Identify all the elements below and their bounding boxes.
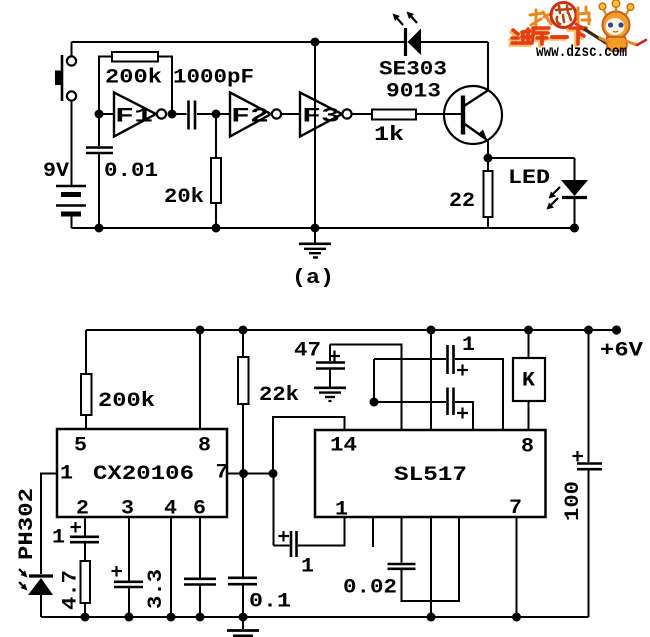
- op-amp F1 inverter: [114, 93, 166, 137]
- svg-text:8: 8: [521, 436, 534, 459]
- logo char 库 red: [532, 28, 549, 44]
- svg-text:1: 1: [301, 556, 314, 579]
- wire pin4 to rail: [170, 517, 172, 617]
- wire 1k to base: [416, 113, 444, 115]
- svg-text:F1: F1: [115, 106, 153, 129]
- ground (b): [227, 617, 259, 636]
- node rail 100: [584, 326, 593, 335]
- svg-text:4.7: 4.7: [60, 570, 83, 610]
- svg-text:8: 8: [198, 435, 211, 458]
- svg-text:100: 100: [562, 481, 585, 521]
- node F1 input: [95, 110, 104, 119]
- capacitor 0.01: [86, 114, 113, 228]
- capacitor 1000pF series: [172, 101, 216, 130]
- resistor 1k: [372, 110, 416, 120]
- op-amp F2 inverter: [216, 93, 281, 137]
- capacitor 1 bottom: [274, 474, 297, 557]
- capacitor at pin6: [184, 517, 216, 617]
- wire F2 out to F3: [281, 113, 300, 115]
- wire CX pin7 to SL pin14: [227, 473, 273, 475]
- wire SL dangling stub: [372, 517, 374, 547]
- resistor R 200k: [112, 52, 158, 62]
- capacitor 3.3 at pin3: [112, 517, 144, 617]
- wire collector drop: [487, 42, 489, 90]
- svg-text:200k: 200k: [105, 67, 162, 90]
- svg-text:22k: 22k: [259, 384, 299, 407]
- resistor 22k: [238, 330, 249, 474]
- node bottom rail junction: [311, 224, 320, 233]
- transistor Q 9013: [444, 86, 502, 144]
- battery 9V: [56, 186, 86, 214]
- capacitor 1 upper: [374, 345, 503, 430]
- node F2 input: [212, 110, 221, 119]
- wire +6V top rail: [86, 329, 617, 331]
- node pin7 bottom: [512, 613, 521, 622]
- svg-text:7: 7: [216, 462, 229, 485]
- svg-text:20k: 20k: [164, 186, 204, 209]
- svg-text:SE303: SE303: [379, 59, 447, 82]
- node rail cap drop: [427, 326, 436, 335]
- node caps left: [370, 398, 379, 407]
- logo char 下 red: [570, 28, 586, 44]
- svg-text:1: 1: [60, 463, 73, 486]
- svg-text:F2: F2: [231, 106, 269, 129]
- wire feedback loop right: [158, 57, 172, 115]
- ground (a): [299, 228, 331, 258]
- logo char 一 red: [552, 35, 567, 39]
- wire rail to CX pin 8: [199, 330, 201, 429]
- wire SL pin1 to cap 1: [298, 517, 345, 546]
- svg-text:14: 14: [330, 435, 357, 458]
- capacitor 47: [316, 345, 345, 369]
- LED indicator diode: [547, 158, 589, 228]
- wire bottom rail (a): [72, 227, 575, 229]
- svg-text:0.01: 0.01: [104, 160, 158, 183]
- wire SL mid pin to ground rail: [430, 517, 432, 617]
- wire emitter node to LED branch: [488, 157, 575, 159]
- logo char 维 red: [512, 29, 530, 43]
- svg-text:0.1: 0.1: [249, 591, 291, 614]
- wire CX pin1 to photodiode: [41, 474, 57, 575]
- svg-text:47: 47: [294, 340, 321, 363]
- node mid pin bottom: [427, 613, 436, 622]
- IC U2 SL517: [315, 430, 546, 522]
- svg-text:1000pF: 1000pF: [173, 67, 254, 90]
- node +6V terminal: [612, 325, 621, 334]
- svg-text:200k: 200k: [98, 390, 155, 413]
- svg-text:www.dzsc.com: www.dzsc.com: [536, 43, 627, 61]
- wire cap pair left link: [373, 359, 375, 402]
- IC U1 CX20106: [57, 429, 229, 521]
- wire 47 top to SL pin: [330, 345, 402, 431]
- svg-text:(a): (a): [292, 267, 334, 290]
- wire SL pin7 to ground rail: [516, 517, 518, 617]
- logo mascot antennae: [603, 4, 630, 17]
- resistor 4.7: [81, 561, 91, 617]
- node 20k bottom: [212, 224, 221, 233]
- svg-text:+6V: +6V: [600, 340, 643, 363]
- wire rail drop to SL top: [430, 330, 432, 430]
- node top rail junction: [311, 38, 320, 47]
- node emitter junction: [484, 154, 493, 163]
- svg-text:1: 1: [462, 334, 475, 357]
- logo red text shadow: [510, 30, 584, 46]
- ground 47: [314, 370, 346, 402]
- svg-text:SL517: SL517: [394, 464, 467, 487]
- photodiode PH302: [19, 569, 53, 617]
- logo mascot body: [607, 37, 627, 51]
- capacitor 0.02: [388, 517, 460, 601]
- wire emitter drop: [487, 140, 489, 158]
- logo char 找: [530, 10, 552, 26]
- node rail pin8: [196, 326, 205, 335]
- logo magnifier ring: [551, 3, 576, 28]
- capacitor 1 lower: [374, 388, 473, 431]
- svg-text:2: 2: [76, 498, 89, 521]
- node ground junction (b): [239, 613, 248, 622]
- resistor 22: [484, 158, 493, 228]
- logo char 芯 in magnifier: [556, 6, 571, 24]
- wire up-over to pin14: [273, 417, 345, 474]
- svg-text:F3: F3: [302, 106, 340, 129]
- wire feedback loop left: [99, 57, 112, 115]
- svg-text:CX20106: CX20106: [93, 463, 194, 486]
- node pin7 branch: [269, 469, 278, 478]
- svg-text:0.02: 0.02: [343, 577, 397, 600]
- wire vertical rail through F3: [314, 42, 316, 228]
- wire switch to battery: [71, 101, 73, 185]
- relay K: [513, 330, 545, 430]
- svg-text:3: 3: [121, 498, 134, 521]
- logo mascot head: [603, 12, 630, 39]
- wire top rail left: [72, 41, 405, 43]
- svg-text:1: 1: [52, 527, 65, 550]
- svg-text:K: K: [522, 370, 535, 393]
- op-amp F3 inverter: [300, 93, 352, 137]
- wire F1 input stub: [99, 113, 114, 115]
- svg-text:1k: 1k: [374, 124, 404, 147]
- svg-text:3.3: 3.3: [145, 569, 168, 609]
- wire battery to bottom rail: [71, 214, 73, 228]
- node rail 22k: [239, 326, 248, 335]
- wire switch drop from rail: [71, 42, 73, 56]
- svg-text:9013: 9013: [386, 81, 441, 104]
- node LED bottom: [570, 224, 579, 233]
- logo mascot pen: [581, 27, 611, 46]
- capacitor 0.1: [228, 474, 257, 618]
- LED SE303 infrared diode: [393, 12, 422, 57]
- resistor 200k (b): [81, 330, 92, 429]
- node pin3 bottom: [125, 613, 134, 622]
- svg-text:7: 7: [509, 497, 522, 520]
- resistor 20k: [211, 114, 221, 228]
- node pin6 bottom: [196, 613, 205, 622]
- node pin2 bottom: [81, 613, 90, 622]
- svg-text:22: 22: [449, 190, 475, 213]
- switch S contacts: [55, 55, 76, 101]
- wire F3 out: [352, 113, 373, 115]
- svg-text:9V: 9V: [43, 160, 69, 183]
- node pin4 bottom: [167, 613, 176, 622]
- capacitor 100: [573, 330, 603, 617]
- svg-text:5: 5: [74, 435, 87, 458]
- wire bottom rail (b): [41, 616, 589, 618]
- logo char 片: [578, 7, 590, 25]
- node F1 output: [168, 110, 177, 119]
- svg-text:LED: LED: [508, 167, 550, 190]
- svg-text:PH302: PH302: [16, 488, 39, 560]
- node 0.01 bottom: [95, 224, 104, 233]
- capacitor 1 at pin2: [70, 517, 99, 561]
- svg-text:1: 1: [335, 499, 348, 522]
- node pin7/22k: [239, 469, 248, 478]
- node rail K: [524, 326, 533, 335]
- wire top rail right: [421, 41, 488, 43]
